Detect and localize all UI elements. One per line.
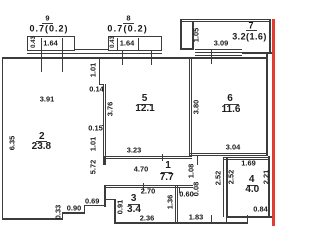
node: dimension 0.15 [88,124,102,131]
wire: bathroom top wall 0.60 line 1 [178,185,193,186]
balcony 9 box [27,36,75,51]
node: room 1 area 7.7 [160,173,174,183]
wire: balcony 7 window band line 2 [195,52,243,53]
balcony 7 right edge [269,19,271,53]
node: dimension 0.60 [179,190,193,197]
wire: underline of 7 [246,30,257,31]
wire: bathroom right wall lower single [226,217,228,224]
node: dimension 2.52 left vertical [214,171,221,185]
wire: bottom step 2 vertical [84,205,85,214]
node: room 4 area 4.0 [245,185,259,195]
wire: room 3 upper-left wall [104,185,106,207]
node: dimension 6.35 vertical [8,135,15,149]
node: balcony 9 window tick right [62,38,63,72]
wire: balcony 7 window band line 3 [195,55,243,56]
wire: bottom exterior wall of room 2 [2,218,63,220]
node: dimension 3.23 [127,146,141,153]
wire: wall room5/6 line 1 [189,58,190,157]
node: tick on room 5 bottom wall [162,154,163,161]
node: balcony 9 area 0.7(0.2) [29,24,68,33]
wire: room 3 top wall line 1 [104,185,179,186]
wire: bottom exterior wall middle [114,222,248,224]
node: dimension 0.69 [85,197,99,204]
node: balcony 8 inner tick right [138,38,139,50]
node: dimension 1.01 lower vertical [89,136,96,150]
wire: room 4 top wall line 2 [223,159,270,160]
wire: underline of room 6 [224,104,240,105]
node: dimension 0.43 balcony 9 [31,36,37,48]
wire: balcony 7 left bottom ledge [180,48,195,50]
wire: underline of room 3 [128,204,140,205]
wire: room 6 right exterior wall [266,54,268,157]
wire: bottom step 1 horizontal 0.90 [62,212,85,214]
wire: room 3 left jog [104,199,117,200]
node: dimension 1.64 balcony 8 [120,39,134,46]
node: dimension 3.91 [40,95,54,102]
wire: top exterior wall interior line [2,57,269,58]
wire: underline of 9 [42,23,53,24]
wire: room 3 right wall line 2 [177,185,178,222]
wire: room 4 left wall line 2 [226,158,227,217]
node: room 5 area 12.1 [135,104,154,114]
wire: left exterior wall [2,57,4,220]
node: balcony 7 window tick [211,49,212,64]
node: balcony 9 window tick left [41,38,42,72]
wire: room 5 bottom wall line 2 [103,158,192,159]
node: dimension 1.69 [241,159,255,166]
node: dimension 1.36 vertical [166,194,173,208]
node: room 2 number [39,132,45,142]
node: dimension 1.83 [189,214,203,221]
wire: balcony 7 window band line 1 [195,49,243,50]
wire: room 5 bottom wall line 1 [103,156,192,157]
balcony 7 top edge inner line [180,21,272,22]
wire: room 3 top wall line 2 [104,187,179,188]
node: balcony 8 window tick right [151,50,152,66]
node: dimension 1.01 upper vertical [89,62,96,76]
node: room 4 number [249,175,255,185]
wire: underline of 8 [123,23,134,24]
node: room 3 number [131,194,137,204]
node: tick on bottom wall under 1.83 [211,215,212,223]
wire: wall room2/5 jog 0.14 [99,84,104,85]
balcony 7 top edge outer line [180,19,272,20]
wire: bottom step 3 vertical [247,215,249,224]
wire: room 4 right exterior wall [268,156,270,217]
node: room 1 number [165,161,171,171]
wire: line between balconies 9 and 8 [75,49,108,50]
wire: corridor left wall segment [103,156,106,165]
wire: top wall outer band line [27,53,162,54]
node: dimension 0.91 vertical [116,199,123,213]
wire: room 3 right wall line 1 [175,185,176,222]
wire: room 4 left wall line 1 [223,158,224,217]
node: label 8 [126,14,130,22]
node: dimension 2.36 [140,214,154,221]
wire: underline of room 1 [161,172,173,173]
wire: wall room5/6 line 2 [191,58,192,157]
wire: underline of room 4 [247,185,258,186]
wire: room 6 bottom wall line 1 [189,153,268,154]
wire: wall room2/5 double left line [103,84,104,156]
balcony 7 left edge [180,19,182,49]
wire: wall room2/5 double right line [105,84,106,156]
node: dimension 0.33 vertical [55,205,62,219]
node: 0.15 tick on wall 2/5 [102,125,104,126]
node: dimension 0.43 balcony 8 [110,36,116,48]
node: dimension 2.52 right vertical [227,169,234,183]
wire: wall room2/5 upper single [99,59,100,86]
node: dimension 3.76 vertical [106,102,113,116]
wire: room 3 lower-left wall [114,199,116,222]
node: label 7 [248,21,253,30]
node: room 5 number [142,94,148,104]
wire: room 4 top wall line 1 [223,157,270,158]
node: balcony 7 area 3.2(1.6) [232,32,267,41]
node: dimension 3.09 [214,39,228,46]
node: room 3 area 3.4 [127,205,141,215]
node: dimension 2.21 vertical [262,170,269,184]
node: balcony 8 window tick left [122,50,123,66]
node: balcony 8 area 0.7(0.2) [107,24,148,33]
node: dimension 0.08 vertical [192,181,199,195]
node: dimension 1.08 vertical [187,163,194,177]
balcony 8 box [108,36,162,51]
node: label 9 [45,14,49,22]
wire: room 6 bottom wall line 2 [189,155,268,156]
wire: underline of room 5 [139,104,152,105]
node: dimension 2.70 [141,187,155,194]
node: dimension 3.04 [226,143,240,150]
node: dimension 0.84 [253,205,267,212]
node: dimension 1.05 vertical [192,27,199,41]
node: dimension 3.80 vertical [192,99,199,113]
node: tick under 0.60 wall [179,188,180,193]
wire: bathroom top wall 0.60 line 2 [178,187,193,188]
node: tick below room 6 bottom wall [197,156,198,164]
node: room 6 area 11.6 [222,105,241,115]
wire: room 4 bottom wall 0.84 [227,216,272,218]
node: dimension 0.14 [89,85,103,92]
wire: balcony 7 inner partition line [192,21,193,49]
node: dimension 1.64 balcony 9 [43,39,57,46]
node: door tick on room 3 top wall [143,183,144,190]
node: dimension 0.90 [67,205,81,212]
node: room 2 area 23.8 [32,142,51,152]
wire: bottom step 1 vertical 0.33 [62,212,63,220]
node: balcony 8 inner tick left [117,38,118,50]
wire: bottom step 2 horizontal 0.69 [84,205,106,207]
balcony 7 bottom right edge [242,52,272,54]
node: dimension 4.70 [134,165,148,172]
red boundary line [272,19,275,227]
wire: underline of room 2 [36,141,47,142]
node: room 6 number [227,94,233,104]
node: dimension 5.72 vertical [89,160,96,174]
